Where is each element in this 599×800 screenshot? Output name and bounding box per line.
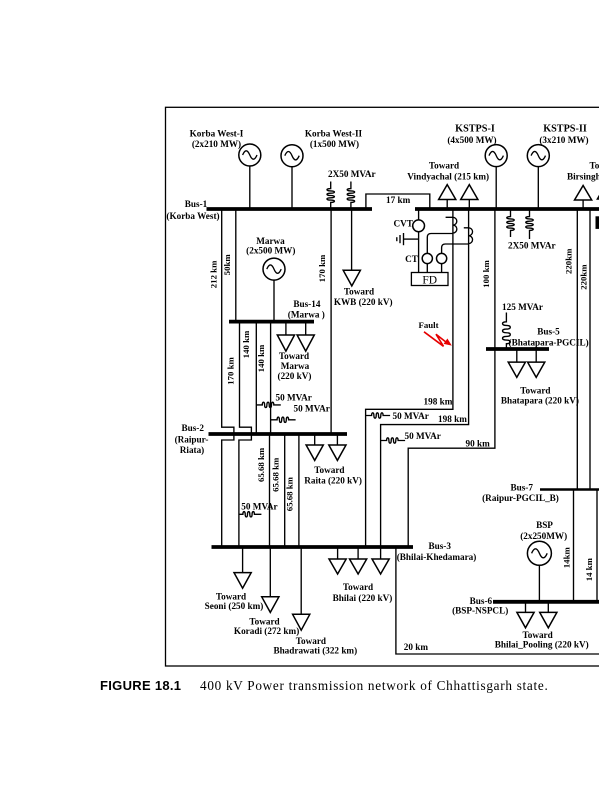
- svg-text:50 MVAr: 50 MVAr: [393, 411, 429, 421]
- CT coupling on 198 km line 1: [446, 217, 457, 233]
- wire 20 km line Bus-3 to Bus-6 area: [396, 547, 599, 654]
- wire 100 km / 90 km line KSTPS bus through Bus-5 to Bus-3: [408, 209, 495, 547]
- wire 198 km line 2 KSTPS bus to Bus-3: [381, 209, 469, 547]
- svg-text:KWB (220 kV): KWB (220 kV): [334, 297, 393, 307]
- reactor 50 MVAr on 140 km line 1: [256, 392, 312, 407]
- svg-text:Bhatapara (220 kV): Bhatapara (220 kV): [501, 396, 579, 406]
- load arrow clipped at right edge: [597, 184, 599, 199]
- svg-text:50 MVAr: 50 MVAr: [405, 431, 441, 441]
- wire 17 km link Bus-1 to KSTPS bus: [366, 194, 430, 209]
- wire 170 km line Bus-14 to Bus-3 (hops Bus-2): [226, 322, 252, 547]
- load Toward Raita arrow 2: [304, 434, 362, 485]
- svg-text:Birsinghpur (21: Birsinghpur (21: [567, 172, 599, 182]
- svg-text:(Korba West): (Korba West): [166, 211, 219, 221]
- svg-text:FD: FD: [422, 274, 437, 286]
- svg-text:Toward: Toward: [343, 582, 373, 592]
- svg-text:Toward: Toward: [296, 636, 326, 646]
- svg-text:Bhilai_Pooling (220 kV): Bhilai_Pooling (220 kV): [495, 640, 589, 650]
- svg-text:65.68 km: 65.68 km: [285, 476, 295, 511]
- svg-text:Bhilai (220 kV): Bhilai (220 kV): [333, 593, 393, 603]
- wire 198 km line 1 KSTPS bus to Bus-3: [366, 209, 453, 547]
- svg-text:(Marwa ): (Marwa ): [288, 310, 325, 320]
- wire 170 km line Bus-1 to Bus-2: [317, 209, 331, 434]
- svg-text:Raita (220 kV): Raita (220 kV): [304, 475, 362, 485]
- FD fault detector box: [411, 273, 448, 287]
- fault marker: [418, 320, 451, 346]
- wire CT 1 tap: [427, 234, 453, 254]
- reactor 50 MVAr on 170 km hop line at Bus-2: [239, 501, 278, 517]
- svg-text:Bus-5: Bus-5: [537, 327, 560, 337]
- reactor 2X50 MVAr at KSTPS bus coil 2: [508, 209, 556, 251]
- svg-text:20 km: 20 km: [404, 642, 429, 652]
- reactor 50 MVAr on 140 km line 2: [271, 404, 330, 423]
- svg-text:140 km: 140 km: [241, 330, 251, 358]
- ground: [397, 233, 419, 245]
- svg-text:(2x500 MW): (2x500 MW): [246, 246, 295, 256]
- figure frame: [166, 107, 599, 666]
- svg-text:Marwa: Marwa: [256, 236, 285, 246]
- svg-text:140 km: 140 km: [256, 344, 266, 372]
- wire 65.68 km line 3 Bus-2 to Bus-3: [285, 434, 299, 547]
- bus Bus-6 (BSP-NSPCL): [452, 596, 599, 616]
- svg-text:Toward: Toward: [520, 385, 550, 395]
- generator KSTPS-II: [527, 124, 588, 210]
- svg-text:Vindyachal (215 km): Vindyachal (215 km): [407, 172, 489, 182]
- reactor 50 MVAr on 198 km line 2: [381, 431, 441, 443]
- svg-text:Toward: Toward: [279, 351, 309, 361]
- svg-text:Bus-7: Bus-7: [510, 483, 533, 493]
- wire 14 km line 2 Bus-7 to Bus-6: [584, 490, 597, 602]
- svg-text:50km: 50km: [222, 254, 232, 276]
- svg-text:Fault: Fault: [418, 320, 438, 330]
- svg-text:Koradi (272 km): Koradi (272 km): [234, 626, 299, 636]
- load Toward Koradi (272 km): [234, 547, 299, 636]
- svg-text:198 km: 198 km: [424, 397, 453, 407]
- svg-text:170 km: 170 km: [317, 254, 327, 282]
- svg-text:220km: 220km: [578, 264, 588, 290]
- bus Bus-3 (Bhilai-Khedamara): [212, 541, 477, 562]
- svg-text:Bhadrawati (322 km): Bhadrawati (322 km): [273, 645, 357, 655]
- bus Bus-7 (Raipur-PGCIL_B): [482, 483, 599, 504]
- svg-text:2X50 MVAr: 2X50 MVAr: [328, 169, 376, 179]
- svg-text:14 km: 14 km: [584, 557, 594, 581]
- wire 65.68 km line 2 Bus-2 to Bus-3: [271, 434, 285, 547]
- svg-text:(Raipur-: (Raipur-: [175, 435, 209, 445]
- load Toward KWB (220 kV): [334, 209, 393, 307]
- svg-text:Toward: Toward: [590, 161, 599, 171]
- reactor 2X50 MVAr at KSTPS bus coil 1: [507, 209, 515, 237]
- wire CT 2 tap: [442, 244, 469, 253]
- svg-text:17 km: 17 km: [386, 195, 411, 205]
- svg-text:Seoni (250 km): Seoni (250 km): [205, 601, 264, 611]
- wire 212 km line Bus-1 to Bus-3 (hops Bus-2): [208, 209, 234, 547]
- reactor 2X50 MVAr at Bus-1 coil 2: [328, 169, 376, 209]
- svg-text:50 MVAr: 50 MVAr: [241, 501, 277, 511]
- wire 140 km line 1 Bus-14 to Bus-2: [241, 322, 256, 434]
- svg-text:(4x500 MW): (4x500 MW): [447, 135, 496, 145]
- svg-text:(Raipur-PGCIL_B): (Raipur-PGCIL_B): [482, 493, 559, 503]
- svg-text:KSTPS-I: KSTPS-I: [455, 124, 495, 135]
- caption: [100, 678, 548, 693]
- bus KSTPS: [415, 207, 599, 211]
- wire 220 km line 2 KSTPS bus to Bus-7: [578, 209, 590, 490]
- svg-text:Bus-14: Bus-14: [293, 299, 320, 309]
- load Toward Seoni (250 km): [205, 547, 264, 611]
- svg-text:220km: 220km: [563, 248, 573, 274]
- load Toward Bhatapara arrow 1: [508, 349, 525, 377]
- svg-text:CVT: CVT: [393, 219, 412, 229]
- load Toward Birsinghpur (up, clipped at right edge): [567, 161, 599, 210]
- svg-text:Korba West-I: Korba West-I: [190, 129, 244, 139]
- bus Bus-1 (Korba West): [166, 199, 372, 221]
- svg-text:212 km: 212 km: [208, 260, 218, 288]
- load Toward Vindyachal arrow 1 (up): [439, 185, 456, 209]
- generator Korba West-II: [281, 129, 363, 210]
- load Toward Vindyachal arrow 2 (up): [407, 161, 489, 210]
- svg-text:Toward: Toward: [344, 287, 374, 297]
- svg-text:50 MVAr: 50 MVAr: [294, 404, 330, 414]
- svg-text:(3x210 MW): (3x210 MW): [539, 135, 588, 145]
- svg-text:170 km: 170 km: [226, 357, 236, 385]
- svg-text:(Bhilai-Khedamara): (Bhilai-Khedamara): [397, 552, 477, 562]
- wire 220 km line 1 KSTPS bus to Bus-7: [563, 209, 577, 490]
- wire CVT branch from KSTPS bus: [418, 209, 420, 273]
- CT circle 1: [405, 253, 432, 263]
- node cut-off label box at right edge: [596, 216, 599, 229]
- load Toward Raita arrow 1: [306, 434, 323, 460]
- load Toward Bhilai arrow 2: [350, 547, 367, 574]
- svg-text:Toward: Toward: [522, 630, 552, 640]
- svg-text:14km: 14km: [562, 547, 572, 569]
- load Toward Marwa arrow 2: [278, 322, 315, 381]
- svg-text:Bus-2: Bus-2: [181, 423, 204, 433]
- reactor 125 MVAr at Bus-5: [502, 302, 543, 349]
- svg-text:90 km: 90 km: [466, 438, 491, 448]
- bus Bus-14 (Marwa): [229, 299, 325, 322]
- reactor 2X50 MVAr at Bus-1 coil 1: [327, 182, 335, 210]
- svg-text:KSTPS-II: KSTPS-II: [543, 124, 587, 135]
- svg-text:(2x250MW): (2x250MW): [520, 531, 567, 541]
- wire CT 1 to FD: [426, 264, 428, 273]
- svg-text:65.68 km: 65.68 km: [271, 457, 281, 492]
- svg-text:Bus-3: Bus-3: [428, 541, 451, 551]
- svg-text:Korba West-II: Korba West-II: [305, 129, 363, 139]
- wire CT 2 to FD: [441, 264, 443, 273]
- svg-text:125 MVAr: 125 MVAr: [502, 302, 543, 312]
- CT coupling on 198 km line 2: [464, 228, 473, 244]
- svg-text:(1x500 MW): (1x500 MW): [310, 139, 359, 149]
- svg-text:50 MVAr: 50 MVAr: [276, 392, 312, 402]
- svg-text:Marwa: Marwa: [281, 361, 310, 371]
- wire 14 km line 1 Bus-7 to Bus-6: [562, 490, 574, 602]
- wire 50 km line Bus-1 to Bus-14: [222, 209, 236, 322]
- svg-text:Bus-1: Bus-1: [185, 199, 208, 209]
- svg-text:Toward: Toward: [249, 617, 279, 627]
- svg-text:65.68 km: 65.68 km: [256, 447, 266, 482]
- CT circle 2: [437, 253, 447, 263]
- svg-text:(220 kV): (220 kV): [278, 371, 312, 381]
- svg-text:Bus-6: Bus-6: [470, 596, 493, 606]
- svg-text:198 km: 198 km: [438, 414, 467, 424]
- svg-text:400 kV Power transmission netw: 400 kV Power transmission network of Chh…: [200, 678, 548, 693]
- CVT: [393, 219, 424, 232]
- reactor 50 MVAr on 198 km line 1: [366, 411, 429, 421]
- wire 65.68 km line 1 Bus-2 to Bus-3: [256, 434, 270, 547]
- load Toward Bhadrawati (322 km): [273, 547, 357, 655]
- svg-text:Toward: Toward: [429, 161, 459, 171]
- generator Korba West-I: [190, 129, 261, 210]
- load Toward Bhilai_Pooling arrow 2: [495, 602, 589, 650]
- svg-text:(BSP-NSPCL): (BSP-NSPCL): [452, 606, 508, 616]
- svg-text:Riata): Riata): [180, 445, 205, 455]
- svg-text:Toward: Toward: [216, 592, 246, 602]
- svg-text:FIGURE 18.1: FIGURE 18.1: [100, 678, 181, 693]
- load Toward Bhilai arrow 1: [329, 547, 346, 574]
- load Toward Bhatapara arrow 2: [501, 349, 579, 406]
- generator BSP: [520, 520, 567, 602]
- svg-text:BSP: BSP: [536, 520, 553, 530]
- svg-text:CT: CT: [405, 254, 418, 264]
- generator KSTPS-I: [447, 124, 507, 210]
- load Toward Bhilai_Pooling arrow 1: [517, 602, 534, 628]
- generator Marwa: [246, 236, 295, 322]
- svg-text:2X50 MVAr: 2X50 MVAr: [508, 241, 556, 251]
- wire 140 km line 2 Bus-14 to Bus-2: [256, 322, 271, 434]
- svg-text:Toward: Toward: [314, 465, 344, 475]
- load Toward Marwa arrow 1: [277, 322, 294, 352]
- bus Bus-2 (Raipur-Riata): [175, 423, 347, 455]
- svg-text:(2x210 MW): (2x210 MW): [192, 139, 241, 149]
- load Toward Bhilai arrow 3: [333, 547, 393, 603]
- svg-text:100 km: 100 km: [481, 260, 491, 288]
- bus Bus-5 (Bhatapara-PGCIL): [486, 327, 589, 350]
